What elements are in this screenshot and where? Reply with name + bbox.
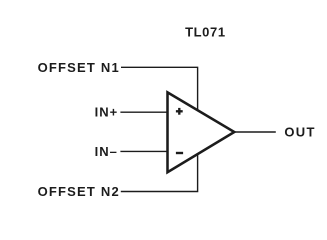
noninverting input marker + xyxy=(176,108,183,115)
svg-text:OFFSET N1: OFFSET N1 xyxy=(38,60,120,75)
wire OUT xyxy=(235,131,276,133)
wire OFFSET N2 to op-amp bottom edge xyxy=(121,153,198,192)
svg-text:IN+: IN+ xyxy=(95,104,119,119)
wire IN+ to op-amp xyxy=(120,111,166,113)
op-amp U1 triangle xyxy=(168,92,235,172)
svg-text:IN–: IN– xyxy=(95,144,118,159)
wire OFFSET N1 to op-amp top edge xyxy=(121,67,198,111)
wire IN- to op-amp xyxy=(120,150,166,152)
inverting input marker - xyxy=(176,152,183,154)
svg-text:OUT: OUT xyxy=(284,124,315,139)
svg-text:TL071: TL071 xyxy=(185,25,226,40)
svg-text:OFFSET N2: OFFSET N2 xyxy=(38,184,120,199)
